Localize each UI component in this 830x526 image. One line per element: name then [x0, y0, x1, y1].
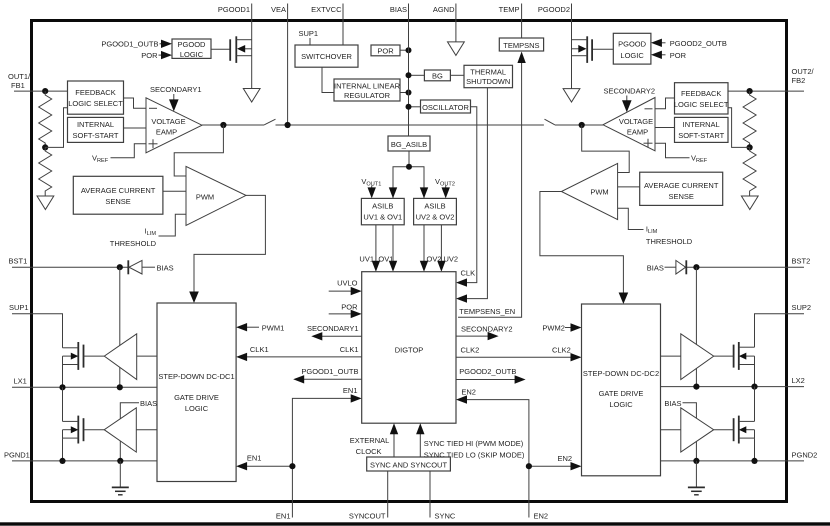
label BIAS (low-side driver 2) — [664, 399, 696, 461]
svg-text:FB2: FB2 — [792, 76, 806, 85]
wire external clock into DIGTOP — [390, 423, 398, 457]
label SYNC TIED HI/LO — [424, 439, 525, 460]
svg-text:TEMPSNS: TEMPSNS — [503, 41, 539, 50]
svg-text:EN2: EN2 — [534, 512, 549, 521]
block TEMPSNS — [499, 38, 543, 51]
svg-text:GATE DRIVE: GATE DRIVE — [174, 393, 219, 402]
ground PGND2 — [688, 461, 705, 495]
pin PGOOD2 — [538, 4, 572, 21]
wire SUP2 rail — [755, 314, 787, 347]
node BIAS-POR junction — [406, 47, 412, 53]
svg-text:PGND2: PGND2 — [792, 451, 818, 460]
wire PWM2 stub into DC-DC2 — [542, 323, 581, 332]
svg-text:THERMAL: THERMAL — [470, 68, 506, 77]
wire driver1 to DC-DC1 — [137, 355, 157, 357]
svg-text:ASILB: ASILB — [372, 202, 393, 211]
pin EN2 (bottom) — [529, 466, 548, 520]
svg-text:SUP2: SUP2 — [792, 303, 812, 312]
wire POR to BIAS net — [400, 49, 409, 51]
block SYNC AND SYNCOUT — [367, 457, 451, 471]
svg-text:PWM: PWM — [196, 193, 214, 202]
svg-text:POR: POR — [377, 46, 394, 55]
block AVERAGE CURRENT SENSE 1 — [73, 176, 163, 214]
svg-text:PWM2: PWM2 — [542, 324, 565, 333]
wire SWITCHOVER to regulator — [322, 67, 334, 92]
svg-text:PGOOD: PGOOD — [618, 40, 647, 49]
wire BIAS to BG — [409, 74, 425, 76]
svg-text:UV1 & OV1: UV1 & OV1 — [363, 213, 402, 222]
transistor Q5 (PGOOD1 pulldown) — [230, 36, 252, 63]
svg-text:REGULATOR: REGULATOR — [344, 91, 391, 100]
svg-text:INTERNAL: INTERNAL — [77, 120, 114, 129]
wire PGOOD logic to Q5 gate — [211, 48, 230, 50]
node BST2 — [693, 264, 699, 270]
wire OV1 to DIGTOP — [378, 225, 397, 272]
svg-text:AVERAGE CURRENT: AVERAGE CURRENT — [81, 186, 156, 195]
svg-text:SECONDARY2: SECONDARY2 — [604, 87, 656, 96]
svg-text:EN1: EN1 — [343, 386, 358, 395]
wire LX1 to Q2 drain — [62, 387, 64, 421]
svg-text:INTERNAL LINEAR: INTERNAL LINEAR — [334, 82, 401, 91]
pin AGND — [433, 4, 456, 21]
svg-text:OUT1/: OUT1/ — [8, 72, 31, 81]
node LX2-rail — [751, 384, 757, 390]
pin TEMP — [499, 4, 522, 21]
wire BIAS vertical net — [408, 20, 410, 136]
svg-text:LOGIC: LOGIC — [185, 404, 209, 413]
block ASILB UV2&OV2 — [414, 198, 457, 224]
svg-text:AGND: AGND — [433, 5, 455, 14]
switch left — [264, 119, 275, 125]
svg-text:EAMP: EAMP — [156, 128, 177, 137]
svg-text:SOFT-START: SOFT-START — [678, 131, 724, 140]
transistor Q6 (PGOOD2 pulldown) — [572, 36, 593, 63]
wire BIAS to oscillator — [409, 106, 421, 108]
svg-text:GATE DRIVE: GATE DRIVE — [599, 389, 644, 398]
svg-text:BIAS: BIAS — [664, 399, 681, 408]
svg-text:EAMP: EAMP — [627, 128, 648, 137]
diode D1 (BIAS to BST1) — [128, 260, 173, 274]
ground PGOOD2 — [563, 89, 580, 102]
block INTERNAL SOFT-START 2 — [675, 117, 729, 142]
svg-text:SWITCHOVER: SWITCHOVER — [301, 52, 352, 61]
wire oscillator CLK to DIGTOP — [458, 107, 477, 283]
wire BST1 — [31, 266, 128, 268]
wire SECONDARY1 out of DIGTOP — [307, 324, 362, 341]
wire PGOOD1 pin rail — [251, 20, 253, 89]
svg-text:FEEDBACK: FEEDBACK — [681, 89, 721, 98]
wire tap to feedback block — [45, 108, 67, 148]
wire PWM1 output to gate drive — [194, 195, 265, 301]
svg-text:FEEDBACK: FEEDBACK — [75, 88, 115, 97]
wire LX2 to Q4 drain — [754, 387, 756, 422]
wire sync mode into DIGTOP — [416, 423, 424, 457]
wire OUT1/FB1 to feedback block — [31, 90, 68, 92]
arrow into TEMPSNS — [517, 52, 525, 64]
op-amp EAMP2 — [603, 98, 655, 151]
wire EXTVCC to SWITCHOVER — [342, 20, 344, 45]
svg-text:SYNCOUT: SYNCOUT — [349, 512, 386, 521]
transistor Q1 (high-side NMOS) — [63, 342, 84, 370]
resistor R1b (lower divider) — [39, 147, 52, 196]
svg-text:POR: POR — [141, 51, 158, 60]
node LX1-bootstrap — [117, 384, 123, 390]
svg-text:LOGIC SELECT: LOGIC SELECT — [68, 99, 123, 108]
node FB2 — [747, 88, 753, 94]
svg-text:PGOOD1: PGOOD1 — [218, 5, 250, 14]
svg-text:PWM1: PWM1 — [262, 324, 285, 333]
wire EAMP2 output to PWM2 — [582, 125, 630, 173]
resistor R2b (lower divider) — [743, 147, 756, 196]
pin SUP2 — [787, 303, 812, 314]
wire EAMP1 output rail — [202, 124, 264, 126]
wire Q1 source to LX1 — [62, 365, 64, 388]
wire UV2 to DIGTOP — [437, 225, 458, 272]
wire PGOOD logic 2 to Q6 gate — [592, 48, 613, 50]
block FEEDBACK LOGIC SELECT 2 — [674, 83, 729, 114]
wire EN2 into DIGTOP — [456, 388, 529, 467]
pin PGOOD1 — [218, 4, 252, 21]
wire TEMPSENS_EN from DIGTOP to TEMPSNS — [458, 62, 522, 317]
wire rail to EAMP2 — [555, 124, 603, 126]
svg-text:SYNC TIED LO (SKIP MODE): SYNC TIED LO (SKIP MODE) — [424, 451, 525, 460]
wire PGOOD2 pin rail — [571, 20, 573, 89]
wire ACS1 to PWM1 — [163, 190, 186, 192]
node PGND2-rail — [751, 458, 757, 464]
pin PGND2 — [787, 451, 818, 461]
svg-text:CLK1: CLK1 — [340, 345, 359, 354]
wire SECONDARY2 out of DIGTOP — [456, 325, 513, 341]
svg-text:SHUTDOWN: SHUTDOWN — [466, 77, 510, 86]
label BIAS (low-side driver 1) — [120, 399, 157, 461]
driver high-side 2 — [681, 334, 714, 380]
svg-text:BG_ASILB: BG_ASILB — [391, 140, 427, 149]
svg-text:OSCILLATOR: OSCILLATOR — [422, 103, 469, 112]
svg-text:SOFT-START: SOFT-START — [73, 131, 119, 140]
svg-text:TEMPSENS_EN: TEMPSENS_EN — [459, 307, 515, 316]
wire OV2 to DIGTOP — [420, 225, 442, 272]
svg-text:SECONDARY1: SECONDARY1 — [307, 324, 359, 333]
ground AGND — [448, 20, 465, 55]
wire ILIM2 to PWM2 — [618, 208, 644, 229]
pin BST2 — [787, 257, 811, 268]
svg-text:DIGTOP: DIGTOP — [395, 346, 424, 355]
pin EXTVCC — [311, 4, 343, 21]
svg-text:PGOOD1_OUTB: PGOOD1_OUTB — [101, 40, 158, 49]
svg-text:BIAS: BIAS — [647, 264, 664, 273]
block DIGTOP — [362, 272, 456, 424]
ground divider2 — [741, 196, 758, 210]
node VEA-rail junction — [285, 122, 291, 128]
svg-text:EXTERNAL: EXTERNAL — [350, 436, 390, 445]
wire PGOOD2_OUTB out of DIGTOP — [456, 367, 526, 384]
wire center rail — [276, 124, 544, 126]
wire driver3 to DC-DC2 — [661, 355, 681, 357]
svg-text:PGOOD1_OUTB: PGOOD1_OUTB — [301, 367, 358, 376]
driver low-side 1 — [104, 408, 136, 452]
switch right — [545, 119, 555, 125]
node EAMP1 output — [220, 122, 226, 128]
svg-text:AVERAGE CURRENT: AVERAGE CURRENT — [644, 181, 719, 190]
svg-text:PWM: PWM — [590, 188, 608, 197]
svg-text:SYNC AND SYNCOUT: SYNC AND SYNCOUT — [370, 461, 448, 470]
wire regulator to BIAS net — [400, 92, 409, 94]
block STEP-DOWN DC-DC1 GATE DRIVE LOGIC — [157, 303, 236, 482]
svg-text:LOGIC: LOGIC — [609, 400, 633, 409]
svg-text:LOGIC SELECT: LOGIC SELECT — [674, 100, 729, 109]
wire softstart to EAMP1 — [124, 127, 147, 129]
svg-text:STEP-DOWN DC-DC2: STEP-DOWN DC-DC2 — [583, 369, 659, 378]
svg-text:SYNC: SYNC — [435, 512, 456, 521]
label POR into PGOOD logic — [141, 51, 172, 60]
wire VEA to rail — [287, 20, 289, 125]
pin PGND1 — [4, 451, 31, 461]
label EXTERNAL CLOCK — [350, 436, 390, 456]
resistor R2a (upper divider) — [743, 91, 756, 147]
pin LX2 — [787, 376, 805, 387]
wire EN2 node to DC-DC2 — [529, 454, 582, 470]
wire Q4 source to PGND2 — [754, 438, 756, 461]
node EAMP2 output — [579, 122, 585, 128]
pin SUP1 — [9, 303, 31, 314]
svg-text:STEP-DOWN DC-DC1: STEP-DOWN DC-DC1 — [158, 372, 234, 381]
svg-text:BG: BG — [432, 71, 443, 80]
svg-text:BST1: BST1 — [9, 257, 28, 266]
node PGND2-driver — [693, 458, 699, 464]
svg-text:CLK1: CLK1 — [250, 345, 269, 354]
svg-text:SUP1: SUP1 — [299, 29, 319, 38]
wire CLK1 DIGTOP to DC-DC1 — [236, 345, 362, 361]
node BST1 — [117, 264, 123, 270]
svg-text:PGOOD2_OUTB: PGOOD2_OUTB — [459, 367, 516, 376]
wire EAMP1 output to PWM1 — [174, 125, 223, 176]
wire thermal shutdown to DIGTOP — [458, 88, 487, 299]
block THERMAL SHUTDOWN — [464, 65, 513, 87]
node BIAS-oscillator junction — [406, 104, 412, 110]
wire softstart2 to EAMP2 — [655, 127, 675, 129]
pin VEA — [271, 4, 288, 21]
svg-text:BST2: BST2 — [792, 257, 811, 266]
bottom page rule — [0, 522, 830, 525]
wire ILIM1 to PWM1 — [159, 214, 187, 236]
svg-text:LX2: LX2 — [792, 376, 805, 385]
block SWITCHOVER — [295, 45, 358, 67]
svg-text:SENSE: SENSE — [668, 192, 693, 201]
arrow into DC-DC1 top — [189, 292, 199, 304]
wire LX1 — [31, 386, 157, 388]
block INTERNAL LINEAR REGULATOR — [334, 79, 401, 101]
transistor Q2 (low-side NMOS) — [63, 416, 84, 444]
label ILIM THRESHOLD 1 — [110, 227, 157, 249]
ground divider1 — [37, 196, 54, 210]
arrow into DIGTOP (CLK) — [456, 278, 467, 286]
svg-text:UVLO: UVLO — [337, 279, 358, 288]
node divider tap — [42, 144, 48, 150]
block BG_ASILB — [388, 136, 430, 151]
wire PGND2 — [661, 460, 787, 462]
wire OUT2/FB2 to feedback block — [728, 90, 787, 92]
svg-text:THRESHOLD: THRESHOLD — [110, 239, 157, 248]
svg-text:SENSE: SENSE — [105, 197, 130, 206]
wire SECONDARY1 arrow into EAMP1 — [169, 94, 179, 111]
wire PWM2 output to gate drive — [540, 192, 624, 303]
wire Q1 gate — [84, 355, 105, 357]
block STEP-DOWN DC-DC2 GATE DRIVE LOGIC — [582, 304, 661, 476]
label POR into PGOOD logic 2 — [651, 51, 687, 60]
svg-text:VEA: VEA — [271, 5, 286, 14]
wire EN1 node to DC-DC1 — [236, 454, 292, 471]
label ILIM THRESHOLD 2 — [646, 225, 693, 247]
op-amp EAMP1 — [146, 98, 202, 153]
node EN2 — [526, 463, 532, 469]
wire LX2 — [661, 386, 787, 388]
svg-text:SUP1: SUP1 — [9, 303, 29, 312]
node LX2-bootstrap — [693, 384, 699, 390]
node LX1-rail — [59, 384, 65, 390]
svg-text:THRESHOLD: THRESHOLD — [646, 237, 693, 246]
svg-text:EXTVCC: EXTVCC — [311, 5, 342, 14]
wire BG_ASILB split to ASILB blocks — [393, 151, 424, 198]
label PGOOD1_OUTB into PGOOD logic — [101, 40, 172, 49]
wire Q3 gate — [714, 355, 734, 357]
wire SUP1 rail — [31, 314, 63, 348]
arrow into ASILB2 (BG) — [420, 187, 428, 198]
node FB1 — [42, 88, 48, 94]
wire Q3 source to LX2 — [754, 365, 756, 387]
svg-text:LOGIC: LOGIC — [620, 51, 644, 60]
node divider tap 2 — [747, 144, 753, 150]
wire Q2 source to PGND1 — [62, 438, 64, 461]
wire EN1 into DIGTOP — [292, 386, 361, 466]
wire feedback2 to EAMP2 minus — [655, 98, 675, 109]
svg-text:UV2: UV2 — [444, 255, 459, 264]
svg-text:PGOOD: PGOOD — [178, 40, 207, 49]
svg-text:CLOCK: CLOCK — [356, 447, 382, 456]
wire BG to thermal shutdown — [450, 74, 464, 76]
block AVERAGE CURRENT SENSE 2 — [640, 172, 723, 205]
svg-text:LX1: LX1 — [14, 377, 27, 386]
wire PGOOD1_OUTB out of DIGTOP — [293, 367, 362, 384]
arrow into DIGTOP (thermal) — [456, 294, 467, 302]
wire Q2 gate — [84, 429, 105, 431]
ground PGOOD1 — [243, 89, 260, 103]
block INTERNAL SOFT-START 1 — [68, 117, 124, 142]
svg-text:LOGIC: LOGIC — [180, 50, 204, 59]
svg-text:PGOOD2_OUTB: PGOOD2_OUTB — [670, 39, 727, 48]
svg-text:SECONDARY1: SECONDARY1 — [150, 85, 202, 94]
node EN1 — [289, 463, 295, 469]
svg-text:BIAS: BIAS — [140, 399, 157, 408]
svg-text:BIAS: BIAS — [157, 264, 174, 273]
wire feedback to EAMP1 minus — [124, 98, 147, 108]
label PGOOD2_OUTB into PGOOD logic 2 — [651, 39, 727, 48]
pin OUT2/FB2 — [787, 67, 815, 91]
arrow into ASILB1 (BG) — [389, 187, 397, 198]
pin BIAS — [390, 4, 409, 21]
svg-text:CLK2: CLK2 — [552, 346, 571, 355]
block ASILB UV1&OV1 — [361, 198, 404, 224]
wire driver4 to DC-DC2 — [661, 429, 681, 431]
wire VREF2 to EAMP2 plus — [655, 143, 690, 158]
svg-text:VOLTAGE: VOLTAGE — [619, 117, 653, 126]
wire driver2 to DC-DC1 — [136, 429, 157, 431]
wire BST2 — [686, 266, 786, 268]
wire UVLO into DIGTOP — [329, 279, 362, 296]
diode D2 (BIAS to BST2) — [647, 260, 686, 274]
block BG — [424, 70, 450, 81]
pin SYNC (bottom) — [430, 471, 456, 521]
svg-text:SECONDARY2: SECONDARY2 — [461, 325, 513, 334]
wire PWM1 stub into DC-DC1 — [236, 323, 284, 333]
svg-text:EN2: EN2 — [461, 388, 476, 397]
node BIAS-regulator junction — [406, 90, 412, 96]
svg-text:TEMP: TEMP — [499, 5, 520, 14]
svg-text:UV1: UV1 — [359, 255, 374, 264]
svg-text:ASILB: ASILB — [424, 202, 445, 211]
wire POR into DIGTOP — [329, 303, 362, 319]
svg-text:POR: POR — [341, 303, 358, 312]
block PGOOD LOGIC 2 — [613, 33, 651, 64]
block FEEDBACK LOGIC SELECT 1 — [68, 81, 124, 114]
driver low-side 2 — [681, 408, 714, 452]
svg-text:OUT2/: OUT2/ — [792, 67, 815, 76]
svg-text:BIAS: BIAS — [390, 5, 407, 14]
driver high-side 1 — [104, 334, 136, 380]
wire UV1 to DIGTOP — [359, 225, 380, 272]
comparator PWM1 — [186, 166, 246, 225]
wire VOUT2 arrow into ASILB2 — [442, 186, 450, 199]
pin EN1 (bottom) — [276, 466, 292, 520]
label SUP1 (switchover input) — [299, 29, 319, 45]
block OSCILLATOR — [421, 100, 471, 113]
node PGND1-rail — [59, 458, 65, 464]
wire Q4 gate — [714, 429, 734, 431]
svg-text:OV1: OV1 — [378, 255, 393, 264]
svg-text:POR: POR — [670, 51, 687, 60]
wire BST1 to LX1 (bootstrap) — [119, 267, 121, 387]
svg-text:FB1: FB1 — [11, 81, 25, 90]
wire SECONDARY2 arrow into EAMP2 — [622, 96, 632, 113]
svg-text:VOLTAGE: VOLTAGE — [151, 117, 185, 126]
wire TEMP to TEMPSNS — [521, 20, 523, 38]
svg-text:CLK: CLK — [461, 269, 476, 278]
comparator PWM2 — [561, 163, 617, 219]
pin OUT1/FB1 — [8, 72, 31, 91]
pin SYNCOUT (bottom) — [349, 471, 388, 521]
svg-text:EN2: EN2 — [558, 454, 573, 463]
pin LX1 — [12, 377, 31, 388]
ground PGND1 — [112, 461, 129, 495]
wire VREF1 to EAMP1 plus — [111, 144, 147, 158]
svg-text:UV2 & OV2: UV2 & OV2 — [416, 213, 455, 222]
resistor R1a (upper divider) — [39, 91, 52, 147]
wire VOUT1 arrow into ASILB1 — [368, 186, 376, 199]
svg-text:EN1: EN1 — [247, 454, 262, 463]
svg-text:PGOOD2: PGOOD2 — [538, 5, 570, 14]
pin BST1 — [9, 257, 32, 268]
wire CLK2 DIGTOP to DC-DC2 — [456, 346, 582, 362]
wire ACS2 to PWM2 — [618, 186, 640, 188]
node PGND1-driver — [117, 458, 123, 464]
wire PGND1 — [31, 460, 157, 462]
svg-text:SYNC TIED HI (PWM MODE): SYNC TIED HI (PWM MODE) — [424, 439, 524, 448]
block POR — [371, 45, 400, 56]
svg-text:EN1: EN1 — [276, 512, 291, 521]
transistor Q3 (high-side NMOS) — [734, 342, 755, 370]
transistor Q4 (low-side NMOS) — [734, 416, 755, 444]
arrow into DC-DC2 top — [619, 293, 629, 305]
block PGOOD LOGIC 1 — [172, 39, 211, 59]
